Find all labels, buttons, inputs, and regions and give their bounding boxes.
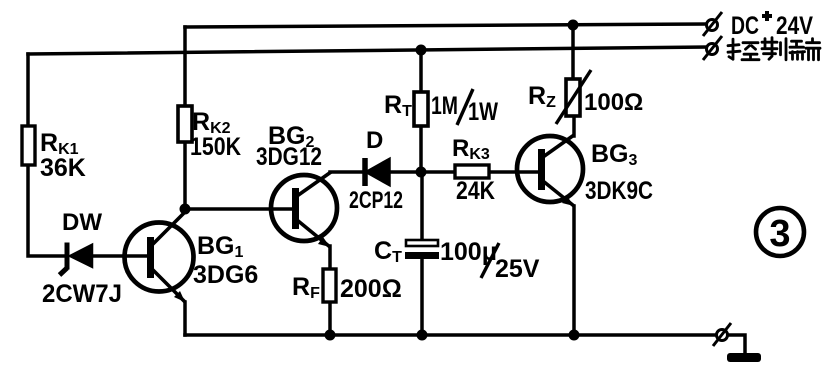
transistor BG2 [271, 172, 337, 247]
svg-text:36K: 36K [40, 154, 86, 182]
terminal control [703, 36, 722, 60]
svg-text:2CP12: 2CP12 [349, 187, 403, 214]
wire RK2 lower drop to node A [183, 142, 187, 209]
wire RK2 upper drop [183, 27, 187, 106]
svg-text:DW: DW [62, 209, 102, 236]
label DC+24V [731, 11, 813, 40]
svg-text:3DG12: 3DG12 [256, 143, 322, 171]
wire RK3 to BG3 base [489, 170, 537, 174]
svg-text:100Ω: 100Ω [584, 89, 643, 116]
wire ground bottom rail [185, 333, 716, 337]
node A junction dot [180, 204, 191, 215]
wire BG3 emitter drop to ground rail [572, 206, 576, 335]
capacitor CT [405, 240, 439, 259]
wire left drop upper (RK1 top) [26, 54, 30, 126]
wire BG2 collector to diode D [330, 170, 363, 174]
wire +24V top rail [185, 24, 707, 27]
svg-text:24K: 24K [456, 177, 495, 205]
resistor RK1 [22, 126, 35, 165]
label RT value 1M/1W [431, 89, 498, 126]
transistor BG3 [517, 135, 583, 206]
wire BG1 emitter drop to ground rail [183, 302, 187, 335]
svg-text:BG3: BG3 [591, 140, 638, 169]
wire BG2 emitter drop to RF [328, 246, 332, 269]
svg-text:RF: RF [292, 273, 320, 302]
transistor BG1 [125, 212, 194, 302]
resistor RK3 [455, 165, 489, 178]
junction dot RF on ground rail [325, 330, 336, 341]
wire CT bottom to ground rail [420, 259, 424, 335]
svg-text:150K: 150K [190, 133, 241, 161]
ground [727, 353, 761, 362]
wire ground terminal to earth [727, 335, 745, 354]
svg-text:3DK9C: 3DK9C [585, 177, 653, 205]
wire control rail to RT top [419, 50, 423, 92]
svg-text:BG1: BG1 [197, 232, 244, 261]
wire node B to RK3 [421, 170, 455, 174]
svg-text:3: 3 [769, 213, 790, 255]
svg-text:CT: CT [374, 237, 402, 266]
zener diode DW [60, 243, 93, 276]
wire DW anode to BG1 base [93, 254, 146, 258]
resistor RT [414, 92, 428, 126]
svg-text:RK3: RK3 [452, 135, 490, 163]
terminal DC+24V [703, 12, 722, 36]
svg-text:25V: 25V [495, 255, 540, 283]
svg-text:D: D [366, 127, 383, 154]
label CT value 100u/25V [440, 238, 540, 283]
wire node B down to CT [420, 172, 424, 240]
wire RZ bottom to BG3 collector [572, 116, 576, 136]
svg-text:1M: 1M [431, 92, 458, 120]
resistor RK2 [178, 106, 192, 142]
junction dot BG3 emitter on ground rail [569, 330, 580, 341]
junction dot RT top on control rail [416, 45, 427, 56]
wire RF bottom to ground rail [328, 302, 332, 335]
svg-text:24V: 24V [776, 12, 813, 40]
diode D [365, 158, 390, 186]
wire control top rail [28, 47, 707, 54]
figure number 3 circled [756, 208, 804, 256]
resistor RZ (adjustable) [556, 70, 591, 124]
junction dot CT on ground rail [417, 330, 428, 341]
svg-text:DC: DC [731, 12, 759, 40]
svg-text:1W: 1W [468, 98, 498, 126]
terminal ground [713, 323, 731, 346]
label control terminal (kong zhi duan) [728, 38, 820, 60]
node B junction dot [416, 167, 427, 178]
wire RT bottom to node B [419, 126, 423, 172]
svg-text:3DG6: 3DG6 [193, 261, 258, 289]
wire node A to BG2 base [185, 207, 292, 211]
wire left drop lower and turn to DW [28, 165, 66, 256]
wire RZ top drop from +24V rail [571, 25, 575, 79]
svg-text:200Ω: 200Ω [340, 275, 402, 303]
svg-text:RT: RT [384, 91, 412, 120]
svg-text:2CW7J: 2CW7J [42, 280, 122, 308]
resistor RF [323, 269, 336, 302]
wire diode D to node B [390, 170, 421, 174]
svg-text:RZ: RZ [528, 82, 556, 111]
junction dot RZ on +24V rail [568, 20, 579, 31]
